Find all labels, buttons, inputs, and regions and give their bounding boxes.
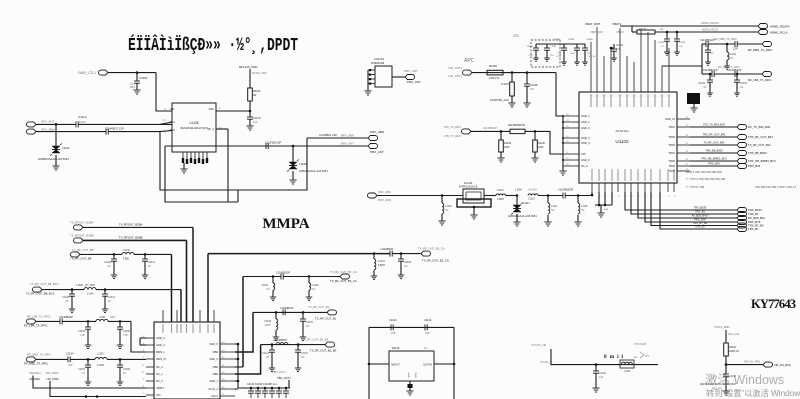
capacitor C1114 [666,32,668,39]
svg-text:10P: 10P [679,46,683,48]
capacitor C1138b [400,254,402,259]
svg-text:NC: NC [710,52,714,55]
svg-text:TX_RFOUT_B2BA: TX_RFOUT_B2BA [119,222,143,226]
ground below R1139 [497,158,504,162]
ground below C1116 [705,62,711,65]
wire after filter [484,195,496,197]
svg-text:LRB01DAAA1+194 5051: LRB01DAAA1+194 5051 [508,214,537,218]
svg-text:L1151: L1151 [99,316,106,319]
wire node PRX_B78 [645,192,737,222]
svg-text:HDMI1_RCLK: HDMI1_RCLK [770,31,788,35]
svg-text:W?RFQ1D1A1-B: W?RFQ1D1A1-B [459,186,478,189]
svg-text:? : ??(?-1 700,700,700,700,: ? : ??(?-1 700,700,700,700,700 [686,177,726,181]
ground below C1130 [734,93,740,96]
wire top right link [662,65,702,67]
ground below U1134 [409,388,411,391]
svg-text:TX_RF_OUT_B3_CA: TX_RF_OUT_B3_CA [330,279,357,283]
svg-text:L1109: L1109 [299,162,307,166]
capacitor C1115 [676,32,678,39]
svg-text:NC: NC [704,86,708,89]
svg-text:PRX_B34: PRX_B34 [748,164,761,168]
svg-text:GND_5: GND_5 [581,141,590,145]
svg-text:GND_3: GND_3 [156,343,165,347]
svg-text:PRX_ANT: PRX_ANT [404,69,418,73]
svg-text:C1123: C1123 [616,44,624,47]
svg-text:TRX1: TRX1 [668,125,675,129]
svg-text:IN/OUT: IN/OUT [391,363,400,367]
svg-text:R1134: R1134 [253,89,261,93]
svg-text:PRX_ABN: PRX_ABN [370,130,384,134]
svg-text:22P: 22P [733,47,738,51]
svg-text:10R 1%: 10R 1% [489,76,499,80]
svg-text:TPA_ANT1: TPA_ANT1 [448,66,462,70]
svg-text:RF_MB3_TX_RFIC: RF_MB3_TX_RFIC [715,37,738,41]
svg-text:L1132: L1132 [624,370,631,373]
svg-text:VMODE1: VMODE1 [29,371,41,375]
svg-text:101R: 101R [570,53,576,55]
svg-text:BGS12SN6+6ESLP QFN: BGS12SN6+6ESLP QFN [181,127,208,130]
op IC U1108 antenna switch [172,103,216,152]
svg-text:GND_7: GND_7 [209,379,218,383]
resistor R1139 [500,131,502,140]
svg-text:YPA_PWR: YPA_PWR [45,371,58,375]
svg-text:PRX_ANT: PRX_ANT [407,80,421,84]
svg-text:PRX_ANT: PRX_ANT [370,150,384,154]
svg-text:YBN_VCC1: YBN_VCC1 [277,376,291,380]
capacitor C1152 [119,321,121,327]
svg-text:C1115: C1115 [679,42,686,44]
wire VTCXO [551,349,658,365]
svg-text:|1NH: |1NH [110,316,116,319]
capacitor C1147b [144,254,146,259]
svg-text:C1141: C1141 [108,296,116,299]
svg-text:1R: 1R [634,356,637,359]
wire node RX_TX_B34_B39 [690,126,737,128]
connector TRX_B8_B933 [737,151,747,156]
wire to RFIN_L [131,321,146,352]
svg-text:L1117: L1117 [523,201,530,205]
wire PRX chain [377,195,463,197]
wire V1014 [725,330,727,343]
svg-text:MMPA: MMPA [262,216,309,232]
svg-text:TX_RF_OUT_B1_CA: TX_RF_OUT_B1_CA [418,247,445,251]
svg-text:TX_RF_OUT_B8: TX_RF_OUT_B8 [72,248,94,252]
svg-text:RF_3: RF_3 [208,127,215,131]
svg-text:R1134: R1134 [392,346,400,350]
svg-text:TRX_B8_B933: TRX_B8_B933 [705,148,723,152]
ground below L1115 [574,222,581,226]
svg-text:C1154: C1154 [66,352,74,356]
wire TX_RF_OUT_B8 chain [80,253,122,255]
connector TX_RF_OUT_B41 [737,143,747,148]
svg-text:.1P: .1P [661,46,665,48]
svg-text:C1130: C1130 [740,82,748,85]
wire vertical link chains [701,44,703,74]
op IC U1102 RF switch [579,92,677,183]
ground below C1132 [592,388,599,392]
wire to MMPA pin vertical a [192,227,194,322]
svg-text:0.1R: 0.1R [556,56,561,58]
svg-text:C1157: C1157 [78,368,86,371]
wire AIR_IN1 [726,364,763,366]
svg-text:C1110: C1110 [568,39,575,41]
wire down to CTL pin [156,73,172,111]
capacitor row under VCC [250,388,252,391]
svg-text:R1L4_940: R1L4_940 [728,333,740,336]
svg-text:MP1: MP1 [130,85,136,89]
svg-text:RF_MB3_TX_RFIC: RF_MB3_TX_RFIC [748,48,772,52]
wire APC to U1102 [556,73,563,116]
svg-text:TX_RF_OUT_B3_CA: TX_RF_OUT_B3_CA [330,270,357,274]
ferrite bead L1132 [620,360,634,368]
svg-text:C1142: C1142 [123,249,131,252]
wire node TRX_B7_B3 [651,192,737,226]
connector PRX_B78 [737,220,747,225]
ground below FL1131 [473,207,475,215]
svg-text:VCC2_2: VCC2_2 [208,387,218,391]
diode L1109 TVS [292,146,294,162]
svg-text:0R: 0R [253,93,256,97]
svg-text:VCC1: VCC1 [211,394,218,398]
svg-text:C1140: C1140 [389,318,397,322]
ground below C1137 [371,276,377,280]
pin VDD [216,110,250,112]
svg-text:RFL110_VDD: RFL110_VDD [239,65,258,69]
svg-text:HDMI1_RCLK: HDMI1_RCLK [702,28,719,32]
wire YPA_PWR [50,381,146,397]
ground below C1157 [85,382,91,386]
ground below C1114 [664,52,670,55]
wire CN1101 to PRX_ANT tag [392,76,405,78]
ground below C1115 [674,52,680,55]
wire MB3 to B3_CA chain [235,366,243,368]
connector PRX_B34 [737,164,747,169]
diode L1117 TVS [516,196,518,206]
resistor R1151 [637,30,655,34]
ground below C1151 [133,90,140,94]
capacitor C1116 [707,44,709,50]
svg-text:TRX_B183: TRX_B183 [694,206,707,210]
capacitor C1156 [119,359,121,365]
svg-text:C1134 C1133 C1143B .1L1: C1134 C1133 C1143B .1L1 [247,383,278,386]
svg-text:C1132: C1132 [599,372,607,375]
svg-text:VMODE1: VMODE1 [29,377,41,381]
U1102 left pin bus [562,116,564,168]
MMPA left gnd stubs [140,337,146,339]
svg-text:C1141: C1141 [424,318,432,322]
svg-text:TRX_B1: TRX_B1 [695,210,705,214]
svg-text:TX_RF_OUT_B2_B3: TX_RF_OUT_B2_B3 [310,349,337,353]
svg-text:C1107: C1107 [550,46,557,48]
svg-text:4.7NH: 4.7NH [97,364,104,367]
connector TRX_B1 [737,212,747,217]
svg-text:U1108: U1108 [189,121,198,125]
svg-text:VDD: VDD [209,107,215,111]
ground below C1147b [142,275,148,279]
wire node TRX_B183 [625,192,737,210]
wire to MMPA pin vertical c [171,254,173,322]
pin RF2 [160,130,172,131]
svg-text:5TX_TX_B34_B39: 5TX_TX_B34_B39 [703,122,725,126]
svg-text:100K: 100K [504,146,510,149]
svg-text:R1134: R1134 [729,346,737,349]
svg-text:R1137: R1137 [502,82,510,86]
svg-text:R1138/30W18:: R1138/30W18: [508,123,525,127]
svg-text:1WAY_CTL1: 1WAY_CTL1 [78,71,96,75]
svg-text:NC: NC [551,209,555,212]
svg-text:VTCXO1B: VTCXO1B [634,342,646,346]
svg-text:1P: 1P [266,356,269,359]
wire node TRX_NB_B4853_BC3 [690,160,737,162]
svg-text:C1145B|22P: C1145B|22P [703,68,718,72]
wire VBAT1 rail to R1151 [620,25,758,27]
ground below L1110 [55,155,57,166]
svg-text:L1130: L1130 [445,205,452,208]
svg-text:CTL: CTL [170,107,175,111]
svg-text:101P: 101P [79,120,86,124]
svg-text:NC: NC [740,86,744,89]
svg-text:TX_RFOUT_B2BB: TX_RFOUT_B2BB [70,234,94,238]
wire VCC row [238,387,290,389]
ground below L1117 [516,214,518,222]
ground below C1148c [273,337,279,341]
wire RF_3 loop [227,129,229,202]
ground below C1147c [295,368,301,372]
svg-text:3.3P: 3.3P [123,334,128,337]
connector RX_B28_B41 [737,216,747,221]
svg-text:NC: NC [404,265,408,268]
svg-text:L1144: L1144 [87,293,94,296]
svg-text:TRX7: TRX7 [668,169,675,173]
capacitor C1141b [104,290,106,294]
svg-text:VTCXO_18: VTCXO_18 [540,361,553,364]
svg-text:JRX_ABN: JRX_ABN [41,127,55,131]
inductor L1111D [547,196,549,204]
wire LB4 chain [36,320,60,322]
wire BGT_CTL1 to CTL [108,72,156,74]
svg-text:A/F5216A: A/F5216A [615,129,628,133]
inductor L1130 [441,196,443,204]
svg-text:JRX_ANT: JRX_ANT [41,120,55,124]
svg-text:7.1%.1R: 7.1%.1R [587,56,596,58]
svg-text:GND_13: GND_13 [665,117,676,121]
ground below C1138 [523,103,530,107]
capacitor C1153 [87,321,89,327]
svg-text:KY77643: KY77643 [751,297,796,311]
svg-text:RFIN_M: RFIN_M [156,357,166,361]
wire RF_A to PRX_ANT [165,145,293,147]
svg-text:NC: NC [66,300,70,303]
svg-text:VIO: VIO [156,393,160,397]
svg-text:LPA_ANT1: LPA_ANT1 [448,74,462,78]
svg-text:U1102: U1102 [615,139,629,144]
capacitor C8110 [535,44,537,48]
svg-text:RF1: RF1 [170,120,175,124]
ground in dashed box right [544,58,550,61]
svg-text:RF110_VDD: RF110_VDD [252,71,267,75]
ground below L1145 [306,297,312,301]
bottom left pin connections [591,192,593,195]
connector TRX_RF_OUT_B41 [737,135,747,140]
wire chain TX_RF_OUT_B2_B3 [261,344,325,346]
ground CN1101 [364,91,371,95]
svg-text:RF_LB4_TX_RFIC: RF_LB4_TX_RFIC [24,324,47,328]
ground below C1170 [300,337,306,341]
inductor L1111 [726,44,728,52]
ground below L1111D [544,222,551,226]
svg-text:226: 226 [513,34,519,38]
svg-text:VBATT: VBATT [156,386,165,390]
svg-text:BRX_ANT: BRX_ANT [341,141,354,145]
wire TX_RFOUT_B2BA [83,226,193,228]
svg-text:LRB01DAAA1+134 5051: LRB01DAAA1+134 5051 [299,169,328,173]
svg-text:L1129|B10P: L1129|B10P [280,307,294,310]
U1102 bottom inner pin label marks [591,169,593,181]
svg-text:转到“设置”以激活 Windows。: 转到“设置”以激活 Windows。 [706,388,800,398]
svg-text:RF_LB4_TX_RFIC: RF_LB4_TX_RFIC [27,315,50,319]
ground below C1152 [117,345,123,349]
connector AIR_IN1_RFQ [763,362,773,367]
ground below C1138b [398,275,404,279]
svg-text:HDMI1_RDATA: HDMI1_RDATA [701,21,719,25]
inductor C1148c 4.8NH [275,312,277,319]
svg-text:100: 100 [253,120,258,124]
wire node TRX_B1 [631,192,737,214]
svg-text:C1119: C1119 [78,115,87,119]
inductor L1115 [577,196,579,204]
capacitor C1117 [735,41,737,47]
svg-text:C1138: C1138 [530,83,538,87]
svg-text:C1147: C1147 [301,352,309,355]
ground below L1130 [438,221,445,225]
svg-text:C1149B|22P: C1149B|22P [700,38,715,42]
op IC MMPA U1101 [154,322,220,399]
wire chain TX_RF_OUT_B3_CA [243,276,281,278]
svg-text:PRX_B78: PRX_B78 [694,218,706,222]
wire loop bottom outer [160,132,307,190]
U1102 right pins [677,118,690,120]
svg-text:C1138: C1138 [404,261,412,264]
svg-text:TRX_B7: TRX_B7 [748,227,759,231]
svg-text:L1110: L1110 [62,146,70,150]
svg-text:GND_4: GND_4 [581,136,590,140]
svg-text:1/10W?6R_ACH: 1/10W?6R_ACH [490,98,509,102]
wire chain TX_RF_OUT_B1 [253,311,327,313]
svg-text:VBAT_RAT: VBAT_RAT [590,30,603,34]
svg-text:C1129: C1129 [698,82,706,85]
svg-text:L1111: L1111 [730,53,737,56]
capacitor C1129 [709,74,711,80]
capacitor C1123 [610,47,613,50]
svg-text:YPA_PWR: YPA_PWR [46,377,59,381]
svg-text:L1113|B10P: L1113|B10P [380,248,394,251]
pin OUT/IN [434,363,454,365]
svg-text:NC: NC [306,325,310,328]
wire APC [472,72,556,74]
MMPA right pins [220,343,235,345]
svg-text:GND: GND [414,373,416,378]
pin RF1 [160,122,172,124]
svg-text:L1155: L1155 [97,353,104,356]
svg-text:RX_TX_B34_B39: RX_TX_B34_B39 [748,125,771,129]
svg-text:31R: 31R [550,55,554,57]
svg-text:MB2: MB2 [213,350,219,354]
svg-text:R1150: R1150 [489,64,497,68]
svg-text:R1151: R1151 [639,27,647,31]
svg-text:C1119: C1119 [528,198,535,201]
svg-text:V1014_BND: V1014_BND [714,325,730,329]
diode L1110 TVS [55,124,57,146]
svg-text:NC: NC [445,209,449,212]
svg-text:C1114: C1114 [262,352,269,355]
svg-text:C1148: C1148 [264,320,272,323]
svg-text:C1152: C1152 [123,330,131,333]
ground below C1139c [722,391,729,395]
ground below C1153 [85,345,91,349]
ground below C1146 [69,309,75,313]
svg-text:TX_RF_OUT_B1: TX_RF_OUT_B1 [315,316,337,320]
svg-text:CN1101: CN1101 [374,57,384,61]
ground below L1109 [292,171,294,180]
capacitor C1146 [71,290,73,294]
U1102 top inner pin label marks [590,94,592,107]
crystal black component [687,93,700,104]
ground below C1156 [117,382,123,386]
svg-text:6.900: 6.900 [123,258,130,261]
svg-text:1P: 1P [148,265,151,268]
svg-text:AV_B28_B41?: AV_B28_B41? [692,214,709,218]
svg-text:AC: AC [424,347,428,350]
U1102 bottom pins [591,183,593,192]
wire BC3 chain [42,289,84,291]
wire chain RF_MB3 [702,43,706,45]
svg-text:3.3P: 3.3P [80,334,85,337]
wire U1134 gnd [409,381,411,386]
svg-text:RFQ:? 700,700,700,700,700: RFQ:? 700,700,700,700,700 [686,170,722,174]
svg-text:TX_RF_OUT_B41: TX_RF_OUT_B41 [703,140,725,144]
svg-text:TRX_RF_OUT_B41: TRX_RF_OUT_B41 [702,132,726,136]
svg-text:TPA_TX_DET: TPA_TX_DET [443,125,461,129]
svg-text:C1151: C1151 [139,76,148,80]
svg-text:3.1A: 3.1A [557,52,562,55]
wire to MMPA pin vertical b [186,240,188,322]
capacitor C1170 [302,312,304,319]
ground below L1111 [724,66,730,69]
svg-text:HDMI1_RDATA: HDMI1_RDATA [770,25,789,29]
wire VMODE1 [33,376,146,389]
svg-text:AIR_IN1_RFQ: AIR_IN1_RFQ [744,361,760,364]
wire U1134 loop sides [368,327,370,399]
ground below L1143 [270,297,276,301]
svg-text:R1139: R1139 [504,142,512,145]
pin IN/OUT [369,363,389,365]
svg-text:NC: NC [108,265,112,268]
svg-text:RF_MB2_TX_RFIC: RF_MB2_TX_RFIC [24,362,48,366]
svg-text:C1153: C1153 [78,330,86,333]
svg-text:C1179: C1179 [253,116,261,120]
svg-text:LTB_TX_DET: LTB_TX_DET [444,134,461,138]
svg-text:OUT/IN: OUT/IN [423,363,432,367]
svg-text:RF_LB3_TX_RFIC: RF_LB3_TX_RFIC [748,78,771,82]
svg-text:ana: ana [604,208,609,211]
MMPA left pins [146,337,154,339]
svg-text:APC: APC [464,58,475,64]
inductor C1137 6.8NH [373,254,375,259]
ground below C1123 [611,58,617,61]
svg-text:MB3: MB3 [213,365,219,369]
svg-text:PRX_ABN: PRX_ABN [378,198,391,202]
svg-text:_A3 2NH: _A3 2NH [526,189,537,192]
